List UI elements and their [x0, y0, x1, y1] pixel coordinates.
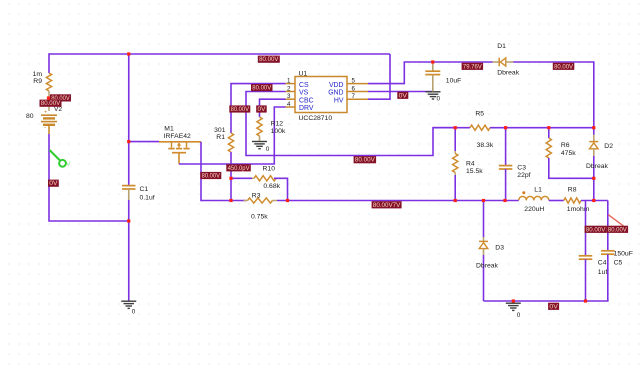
label R1 value 301	[214, 127, 226, 134]
pin number 6	[352, 85, 356, 92]
svg-text:C1: C1	[140, 186, 149, 193]
wire CBC run	[260, 99, 286, 117]
svg-text:1: 1	[287, 77, 291, 84]
inductor L1	[519, 196, 549, 200]
capacitor C4	[579, 256, 593, 259]
ground middle 0	[426, 92, 441, 103]
svg-text:DRV: DRV	[299, 105, 314, 112]
junction R6 top	[547, 126, 550, 129]
pin number 2	[287, 85, 291, 92]
label D1 ref	[497, 43, 506, 50]
svg-text:0: 0	[437, 96, 441, 103]
transistor M1	[159, 142, 201, 164]
svg-text:0: 0	[266, 146, 270, 153]
resistor R3	[244, 198, 278, 203]
svg-text:220uH: 220uH	[524, 206, 544, 213]
svg-text:80.00V: 80.00V	[252, 85, 272, 92]
svg-text:22pf: 22pf	[517, 172, 530, 179]
wire left rail to R9	[48, 53, 50, 73]
resistor R8	[564, 198, 581, 203]
wire C3 top	[505, 128, 507, 166]
svg-text:1mohm: 1mohm	[567, 206, 590, 213]
resistor R9	[46, 73, 51, 111]
pin name HV	[334, 97, 344, 104]
label M1 ref	[164, 126, 174, 133]
pin number 7	[352, 93, 356, 100]
capacitor C3	[499, 166, 512, 169]
svg-text:R1: R1	[216, 134, 225, 141]
svg-text:R10: R10	[263, 166, 276, 173]
label C3 ref	[517, 164, 526, 171]
pin name CS	[299, 82, 309, 89]
label L1 value 220uH	[524, 206, 544, 213]
junction R6 D2 bottom	[592, 177, 595, 180]
svg-text:450.0pV: 450.0pV	[228, 165, 251, 172]
svg-text:Dbreak: Dbreak	[497, 70, 520, 77]
U1 pin stubs left	[286, 84, 296, 107]
svg-text:R8: R8	[568, 186, 577, 193]
svg-text:D2: D2	[604, 143, 613, 150]
wire bottom right rail	[484, 300, 609, 302]
svg-text:0V: 0V	[399, 92, 408, 99]
pin name DRV	[299, 105, 314, 112]
svg-text:80.00V: 80.00V	[41, 100, 61, 107]
L1 phase dot	[522, 191, 525, 194]
label C5 value 150uF	[614, 251, 633, 258]
label R1 ref	[216, 134, 225, 141]
wire R8 right	[581, 200, 608, 202]
label D3 value Dbreak	[476, 263, 499, 270]
svg-text:0V: 0V	[549, 303, 558, 310]
voltage probe marker	[50, 150, 72, 168]
svg-text:L1: L1	[534, 186, 542, 193]
junction V2 return	[127, 219, 130, 222]
svg-text:C3: C3	[517, 164, 526, 171]
wire HV run	[368, 54, 390, 99]
diode D1	[493, 58, 513, 67]
svg-text:HV: HV	[334, 97, 344, 104]
svg-text:150uF: 150uF	[614, 251, 633, 258]
capacitor C1	[122, 186, 136, 200]
junction R4 top	[454, 126, 457, 129]
junction input rail top	[127, 52, 130, 55]
bias label 0V GND pin	[397, 92, 408, 100]
label R6 value 475k	[561, 150, 576, 157]
diode D3	[479, 201, 488, 302]
pin name VDD	[329, 82, 344, 89]
svg-text:79.76V: 79.76V	[463, 63, 483, 70]
label R9 ref	[33, 78, 42, 85]
wire C5 top	[607, 201, 609, 251]
label C1 ref	[140, 186, 149, 193]
label R3 value 0.75k	[251, 214, 268, 221]
junction R3 right	[286, 199, 289, 202]
wire C5 bottom	[607, 254, 609, 301]
capacitor 10uF	[425, 62, 440, 92]
label C5 ref	[614, 260, 623, 267]
svg-text:80.00V: 80.00V	[355, 157, 376, 164]
wire R10 left	[231, 177, 252, 179]
svg-text:15.5k: 15.5k	[466, 168, 483, 175]
wire D1 output	[513, 62, 594, 128]
junction C3 bottom	[503, 199, 506, 202]
label C4 ref	[598, 260, 607, 267]
label V2 ref	[54, 106, 62, 113]
label R12 value 100k	[271, 128, 286, 135]
svg-text:80.00V: 80.00V	[608, 226, 628, 233]
bias label 0V bottom right	[548, 303, 559, 311]
junction D2 top	[592, 126, 595, 129]
svg-text:C5: C5	[614, 260, 623, 267]
label R10 value 0.68k	[263, 183, 280, 190]
svg-text:R3: R3	[252, 193, 261, 200]
svg-text:5: 5	[352, 77, 356, 84]
label R12 ref	[271, 121, 284, 128]
bias label 80.00V C5	[607, 226, 629, 234]
wire R5 row left	[433, 127, 470, 129]
label D2 value Dbreak	[586, 163, 609, 170]
svg-text:0: 0	[517, 312, 521, 319]
bias label 0V at V2 bottom	[48, 180, 59, 188]
junction C3 top	[504, 126, 507, 129]
battery V2	[41, 110, 57, 135]
wire gate tap	[129, 141, 159, 143]
resistor R1	[228, 133, 233, 152]
bias label 80.00V VS wire	[354, 156, 377, 164]
svg-text:0.68k: 0.68k	[263, 183, 280, 190]
bias label 79.76V	[462, 63, 484, 71]
label M1 value IRFAE42	[164, 133, 191, 140]
svg-text:475k: 475k	[561, 150, 576, 157]
wire VDD run	[368, 62, 493, 84]
svg-text:CBC: CBC	[299, 97, 314, 104]
junction D3 top	[482, 199, 485, 202]
svg-text:2: 2	[287, 85, 291, 92]
wire R6 bottom	[549, 158, 594, 178]
junction R4 bottom	[454, 199, 457, 202]
svg-text:0V: 0V	[258, 106, 267, 113]
svg-text:CS: CS	[299, 82, 309, 89]
ground R12 0	[252, 142, 270, 153]
wire R6 top	[548, 128, 550, 138]
pin number 5	[352, 77, 356, 84]
wire R10 right	[274, 178, 288, 200]
label R6 ref	[561, 142, 570, 149]
svg-text:VDD: VDD	[329, 82, 344, 89]
wire D2 to output node	[593, 178, 595, 201]
label R5 value 38.3k	[477, 142, 494, 149]
svg-text:0.1uf: 0.1uf	[140, 194, 155, 201]
junction V2 top	[47, 96, 50, 99]
wire top rail	[49, 53, 390, 55]
resistor R4	[453, 154, 458, 176]
label R3 ref	[252, 193, 261, 200]
svg-text:GND: GND	[328, 90, 343, 97]
svg-text:80.00V: 80.00V	[231, 106, 250, 113]
wire VS run	[246, 92, 455, 156]
label U1 value UCC28710	[299, 115, 333, 122]
svg-text:0.75k: 0.75k	[251, 214, 268, 221]
svg-text:VS: VS	[299, 90, 309, 97]
wire CS run	[231, 84, 286, 133]
wire V2 to bottom node	[49, 134, 129, 221]
bias label 80.00V at V2 top back	[50, 94, 71, 102]
label R9 value 1m	[33, 71, 43, 78]
junction R3 left	[229, 199, 232, 202]
bias label 80.00V after D1	[553, 63, 575, 71]
label C4 value 1uf	[598, 269, 608, 276]
bias label 80.00V C4	[585, 226, 607, 234]
ground bottom-right 0	[506, 301, 521, 319]
svg-text:R6: R6	[561, 142, 570, 149]
pin number 4	[287, 101, 291, 108]
resistor R5	[470, 125, 490, 130]
resistor R12	[257, 117, 262, 141]
junction R10 left	[229, 177, 232, 180]
op-amp U1 UCC28710 box	[295, 77, 347, 113]
svg-text:R5: R5	[475, 110, 484, 117]
svg-text:3: 3	[287, 93, 291, 100]
wire C4 top	[585, 201, 587, 256]
label U1 ref	[299, 70, 308, 77]
svg-text:IRFAE42: IRFAE42	[164, 133, 191, 140]
bias label 450.0pV	[226, 164, 251, 172]
capacitor C5	[601, 251, 615, 254]
svg-text:80.00V: 80.00V	[586, 226, 606, 233]
svg-text:D3: D3	[495, 245, 504, 252]
svg-text:0: 0	[132, 309, 136, 316]
ground bottom-left 0	[121, 301, 136, 315]
svg-text:7: 7	[352, 93, 356, 100]
bias pointer line	[608, 215, 623, 226]
wire L1 to R8	[549, 200, 564, 202]
label R8 value 1mohm	[567, 206, 590, 213]
svg-text:R4: R4	[466, 161, 475, 168]
wire R1 bottom	[230, 152, 232, 201]
svg-text:1uf: 1uf	[598, 269, 608, 276]
svg-text:80.00V: 80.00V	[259, 56, 279, 63]
junction C4 bottom	[584, 299, 587, 302]
svg-text:+: +	[44, 110, 47, 116]
svg-text:Dbreak: Dbreak	[586, 163, 609, 170]
svg-text:U1: U1	[299, 70, 308, 77]
pin number 1	[287, 77, 291, 84]
svg-text:-: -	[44, 125, 46, 132]
resistor R10	[252, 176, 279, 181]
label V2 value 80	[26, 113, 34, 120]
bias label 80.00V top rail	[258, 56, 280, 64]
svg-text:80.00V: 80.00V	[202, 173, 221, 180]
bias label 0V CBC	[256, 105, 267, 113]
svg-text:38.3k: 38.3k	[477, 142, 494, 149]
svg-text:80: 80	[26, 113, 34, 120]
bias label 80.00V at V2 top front	[40, 100, 62, 108]
U1 pin stubs right	[347, 84, 368, 100]
bias label 80.00V7V output	[372, 201, 402, 209]
bias label 80.00V CS	[251, 84, 273, 92]
label C3 value 22pf	[517, 172, 530, 179]
label D2 ref	[604, 143, 613, 150]
svg-text:10uF: 10uF	[446, 78, 462, 85]
diode D2	[589, 128, 598, 179]
wire R4 top	[454, 128, 456, 154]
wire GND run	[368, 91, 433, 93]
resistor R6	[546, 138, 551, 158]
bias label 80.00V near R1	[229, 105, 250, 113]
svg-text:C4: C4	[598, 260, 607, 267]
svg-text:80.00V7V: 80.00V7V	[373, 202, 401, 209]
wire input rail vertical	[128, 54, 130, 186]
label L1 ref	[534, 186, 542, 193]
svg-text:UCC28710: UCC28710	[299, 115, 333, 122]
svg-text:100k: 100k	[271, 128, 286, 135]
svg-text:V: V	[66, 161, 71, 168]
pin name CBC	[299, 97, 314, 104]
wire bottom row mid	[277, 200, 519, 202]
bias label 80.00V M1 source	[200, 172, 221, 180]
svg-text:Dbreak: Dbreak	[476, 263, 499, 270]
svg-text:6: 6	[352, 85, 356, 92]
label R4 ref	[466, 161, 475, 168]
junction ground right	[512, 299, 515, 302]
junction VDD cap	[431, 60, 434, 63]
pin name VS	[299, 90, 309, 97]
svg-text:4: 4	[287, 101, 291, 108]
label D1 value Dbreak	[497, 70, 520, 77]
pin number 3	[287, 93, 291, 100]
label D3 ref	[495, 245, 504, 252]
svg-text:M1: M1	[164, 126, 174, 133]
wire R4 bottom	[454, 175, 456, 201]
label 10uF	[446, 78, 462, 85]
wire M1 source down	[200, 142, 202, 202]
label R4 value 15.5k	[466, 168, 483, 175]
svg-text:R9: R9	[33, 78, 42, 85]
label R10 ref	[263, 166, 276, 173]
wire R5 row right	[490, 127, 594, 129]
svg-text:R12: R12	[271, 121, 284, 128]
svg-text:0V: 0V	[49, 180, 58, 187]
wire C4 bottom	[585, 259, 587, 301]
wire C3 bottom	[505, 169, 507, 201]
pin name GND	[328, 90, 343, 97]
junction gate tap	[127, 140, 130, 143]
junction output node	[592, 199, 595, 202]
wire C1 to ground	[128, 200, 130, 301]
wire DRV to gate	[179, 107, 286, 164]
svg-text:D1: D1	[497, 43, 506, 50]
label R8 ref	[568, 186, 577, 193]
label R5 ref	[475, 110, 484, 117]
svg-text:80.00V: 80.00V	[554, 63, 574, 70]
wire bottom row left	[201, 200, 246, 202]
label C1 value 0.1uf	[140, 194, 155, 201]
